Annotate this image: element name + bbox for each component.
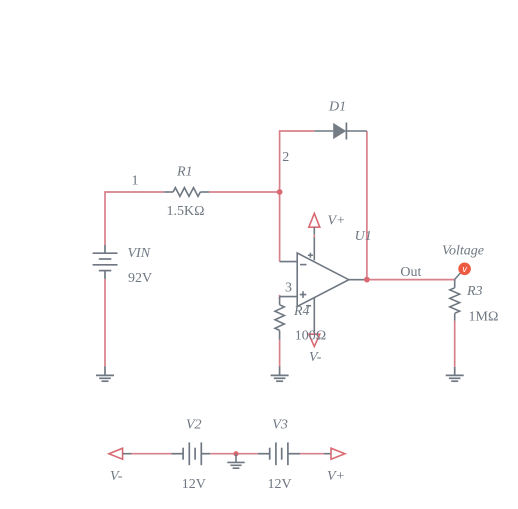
svg-text:v: v xyxy=(462,264,467,274)
battery VIN xyxy=(93,245,118,279)
svg-text:1MΩ: 1MΩ xyxy=(469,310,499,325)
V- supply arrow xyxy=(309,332,320,347)
svg-text:V-: V- xyxy=(110,469,123,484)
svg-text:12V: 12V xyxy=(182,477,206,492)
svg-text:92V: 92V xyxy=(128,271,152,286)
junction node2 xyxy=(277,189,283,195)
resistor R3 xyxy=(450,279,460,320)
wire junction down to inverting input xyxy=(279,192,281,262)
junction output node xyxy=(364,277,370,283)
svg-text:Voltage: Voltage xyxy=(442,243,484,258)
wire VIN bottom to ground xyxy=(104,279,106,367)
svg-text:D1: D1 xyxy=(328,100,346,115)
pin output lead xyxy=(349,279,367,281)
resistor R1 xyxy=(164,188,209,197)
svg-text:100Ω: 100Ω xyxy=(295,328,326,343)
svg-text:VIN: VIN xyxy=(128,246,151,261)
svg-text:U1: U1 xyxy=(355,229,372,244)
wire net1 battery-top to R1 xyxy=(105,192,164,245)
ground bottom rail xyxy=(227,454,244,469)
svg-text:V2: V2 xyxy=(186,417,202,432)
pin noninverting lead xyxy=(280,296,298,298)
wire diode cathode down to output node xyxy=(366,131,368,280)
svg-text:V+: V+ xyxy=(328,213,346,228)
junction bottom rail xyxy=(233,451,238,456)
resistor R4 xyxy=(275,297,284,340)
battery V2 xyxy=(172,442,211,465)
svg-text:V+: V+ xyxy=(327,469,345,484)
pin inverting lead xyxy=(280,261,298,263)
wire net1 R1 to junction xyxy=(209,191,279,193)
svg-text:R3: R3 xyxy=(466,284,483,299)
op-amp U1 xyxy=(280,237,367,333)
ground under R3 xyxy=(446,367,464,381)
plus mark top supply xyxy=(308,253,313,258)
wire R4 bottom to ground xyxy=(279,340,281,367)
minus mark inverting input xyxy=(300,264,307,266)
wire R3 bottom to ground xyxy=(454,321,456,367)
svg-text:1.5KΩ: 1.5KΩ xyxy=(167,204,205,219)
wire V2 to V3 through center junction xyxy=(210,453,258,455)
ground under R4 xyxy=(271,367,289,382)
pin V- lead xyxy=(313,298,315,333)
minus mark bottom supply xyxy=(306,305,311,307)
diode D1 xyxy=(314,123,367,140)
wire V- arrow to V2 xyxy=(132,453,172,455)
wire output node to R3 corner xyxy=(367,279,455,281)
pin V+ lead xyxy=(313,237,315,261)
plus mark noninverting input xyxy=(300,291,307,298)
V+ supply arrow xyxy=(309,213,320,236)
wire node2 junction up to diode xyxy=(280,131,315,192)
probe connector xyxy=(455,273,461,279)
svg-text:R4: R4 xyxy=(293,304,310,319)
svg-text:2: 2 xyxy=(282,150,289,165)
battery V3 xyxy=(258,442,300,465)
ground under VIN xyxy=(96,367,114,382)
probe Voltage xyxy=(458,263,471,276)
svg-text:12V: 12V xyxy=(268,477,292,492)
bottom rail: V- arrow connector xyxy=(109,448,132,459)
svg-text:3: 3 xyxy=(285,281,292,296)
wire V3 to V+ arrow xyxy=(300,453,324,455)
bottom rail: V+ arrow connector xyxy=(324,448,345,459)
svg-text:V-: V- xyxy=(309,350,322,365)
svg-text:R1: R1 xyxy=(176,165,193,180)
svg-text:V3: V3 xyxy=(272,417,288,432)
svg-text:1: 1 xyxy=(132,174,139,189)
svg-text:Out: Out xyxy=(400,265,421,280)
wire node3 corner xyxy=(279,295,281,299)
